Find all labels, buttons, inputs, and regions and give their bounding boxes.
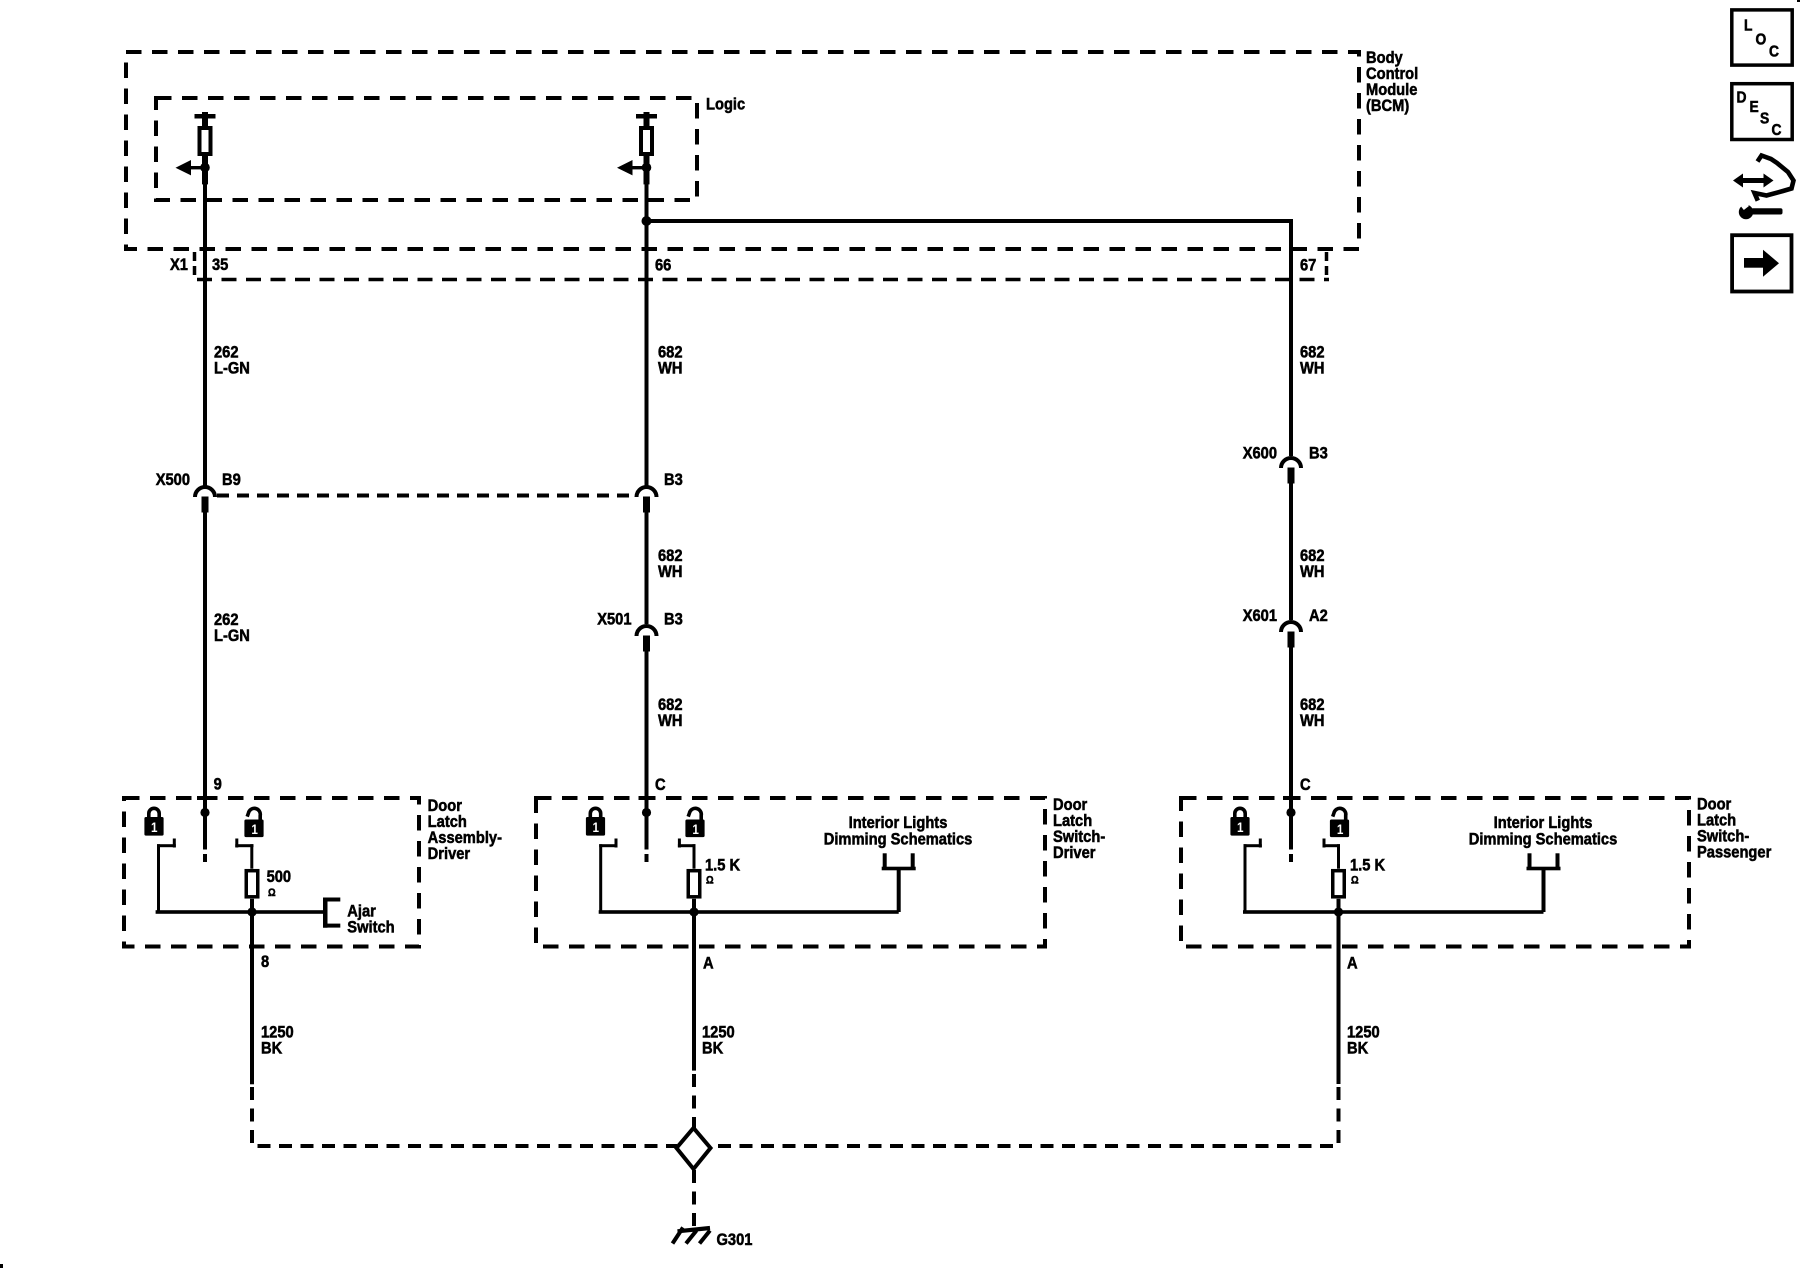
svg-text:C: C <box>1771 121 1781 139</box>
svg-text:500: 500 <box>267 868 292 886</box>
svg-text:X1: X1 <box>170 256 188 274</box>
svg-text:X501: X501 <box>597 611 631 629</box>
svg-text:X600: X600 <box>1243 445 1277 463</box>
svg-text:BK: BK <box>1347 1039 1369 1057</box>
svg-text:B3: B3 <box>664 611 683 629</box>
svg-text:Ω: Ω <box>706 875 714 887</box>
svg-text:E: E <box>1749 98 1758 116</box>
svg-text:BK: BK <box>261 1039 283 1057</box>
svg-text:67: 67 <box>1300 257 1316 275</box>
svg-text:Ω: Ω <box>268 887 276 899</box>
svg-text:S: S <box>1760 110 1769 128</box>
svg-text:B3: B3 <box>664 471 683 489</box>
svg-text:Dimming Schematics: Dimming Schematics <box>824 830 973 848</box>
svg-text:(BCM): (BCM) <box>1366 97 1409 115</box>
svg-text:WH: WH <box>1300 712 1324 730</box>
svg-text:Ω: Ω <box>1351 875 1359 887</box>
svg-text:Switch: Switch <box>347 919 394 937</box>
svg-text:1.5 K: 1.5 K <box>705 857 741 875</box>
svg-text:1.5 K: 1.5 K <box>1350 857 1386 875</box>
svg-text:C: C <box>1300 776 1311 794</box>
svg-text:X601: X601 <box>1243 607 1277 625</box>
svg-text:Logic: Logic <box>706 96 745 114</box>
svg-text:Dimming Schematics: Dimming Schematics <box>1469 830 1618 848</box>
svg-text:X500: X500 <box>156 471 190 489</box>
svg-text:66: 66 <box>655 257 671 275</box>
svg-text:9: 9 <box>214 776 222 794</box>
svg-text:G301: G301 <box>716 1231 752 1249</box>
svg-text:WH: WH <box>658 563 682 581</box>
svg-text:A: A <box>1347 955 1358 973</box>
svg-text:Passenger: Passenger <box>1697 844 1771 862</box>
svg-text:L: L <box>1744 17 1752 35</box>
svg-text:WH: WH <box>1300 360 1324 378</box>
svg-text:L-GN: L-GN <box>214 627 250 645</box>
svg-text:O: O <box>1756 31 1767 49</box>
svg-text:L-GN: L-GN <box>214 360 250 378</box>
svg-text:B9: B9 <box>222 471 241 489</box>
svg-text:C: C <box>655 776 666 794</box>
svg-text:WH: WH <box>658 360 682 378</box>
svg-text:A2: A2 <box>1309 607 1328 625</box>
svg-text:Driver: Driver <box>428 845 470 863</box>
svg-text:D: D <box>1736 88 1746 106</box>
svg-text:B3: B3 <box>1309 445 1328 463</box>
svg-text:35: 35 <box>212 256 228 274</box>
svg-text:WH: WH <box>658 712 682 730</box>
svg-text:Driver: Driver <box>1053 844 1095 862</box>
svg-text:WH: WH <box>1300 563 1324 581</box>
svg-text:A: A <box>703 955 714 973</box>
svg-text:BK: BK <box>702 1039 724 1057</box>
svg-text:8: 8 <box>261 953 269 971</box>
svg-text:C: C <box>1769 42 1779 60</box>
